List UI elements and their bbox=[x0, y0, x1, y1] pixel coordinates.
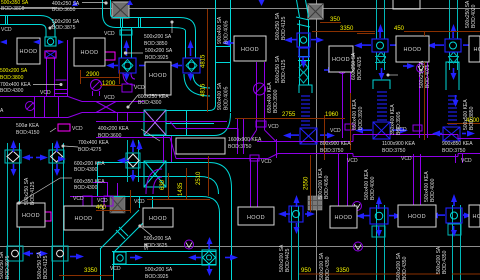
duct elbow down bbox=[40, 16, 55, 31]
svg-text:500x200 SA: 500x200 SA bbox=[144, 34, 172, 40]
right side drops below duct bbox=[338, 154, 340, 206]
svg-text:500x200 SA: 500x200 SA bbox=[145, 267, 173, 273]
svg-text:BOD:4000: BOD:4000 bbox=[370, 176, 376, 200]
svg-text:500x200 SA: 500x200 SA bbox=[0, 68, 28, 74]
right diffusers top bbox=[372, 39, 388, 52]
bottom long SA duct bbox=[112, 250, 216, 265]
svg-text:3350: 3350 bbox=[340, 26, 354, 32]
svg-text:900x850 KEA: 900x850 KEA bbox=[442, 141, 473, 147]
hood H10 bbox=[238, 207, 274, 225]
overlay arrow on hood H1 bbox=[33, 40, 40, 45]
svg-text:1960: 1960 bbox=[325, 112, 339, 118]
right arrows bbox=[145, 63, 153, 69]
cross transition bbox=[96, 102, 116, 113]
duct big elbow center bbox=[97, 162, 209, 164]
hood H12 bbox=[398, 205, 436, 227]
duct elbow down right bbox=[180, 18, 196, 32]
svg-text:500ø KEA: 500ø KEA bbox=[16, 123, 39, 129]
svg-text:BOD:4005: BOD:4005 bbox=[224, 20, 230, 44]
svg-text:VCD: VCD bbox=[104, 31, 115, 37]
hood H4 bbox=[329, 46, 353, 72]
svg-text:BOD:4300: BOD:4300 bbox=[138, 100, 162, 106]
svg-text:BOD:4050: BOD:4050 bbox=[324, 175, 330, 199]
damper on slant duct bbox=[297, 33, 310, 47]
svg-text:VCD: VCD bbox=[461, 158, 472, 164]
svg-text:VCD: VCD bbox=[347, 158, 358, 164]
svg-text:2550: 2550 bbox=[304, 176, 310, 190]
svg-text:VCD: VCD bbox=[1, 27, 12, 33]
slant duct 500x250 top center bbox=[296, 0, 312, 93]
hood H1 bbox=[17, 38, 40, 64]
svg-text:800x900 KEA: 800x900 KEA bbox=[320, 141, 351, 147]
svg-text:BOD:4300: BOD:4300 bbox=[0, 88, 24, 94]
white leader lines bbox=[18, 2, 398, 236]
hood2 drop bbox=[67, 40, 69, 96]
svg-text:VCD: VCD bbox=[104, 95, 115, 101]
svg-text:350: 350 bbox=[330, 17, 341, 23]
svg-text:1200: 1200 bbox=[102, 81, 116, 87]
svg-text:BOD:4125: BOD:4125 bbox=[281, 59, 287, 83]
hood H5 bbox=[396, 36, 429, 62]
svg-text:1100x900 KEA: 1100x900 KEA bbox=[382, 141, 416, 147]
white equipment rect bbox=[176, 138, 225, 154]
svg-text:500x200 SA: 500x200 SA bbox=[144, 236, 172, 242]
svg-text:BOD:3925: BOD:3925 bbox=[145, 274, 169, 280]
white equipment rect top bbox=[393, 0, 420, 9]
diffuser box drop1 bbox=[119, 58, 136, 73]
circle damper symbol bbox=[26, 102, 35, 111]
svg-text:VCD: VCD bbox=[330, 128, 341, 134]
big exhaust duct left bbox=[0, 96, 68, 98]
diffusers bottom bbox=[7, 246, 23, 261]
grid line horizontal top bbox=[0, 8, 480, 10]
svg-text:BOD:4025: BOD:4025 bbox=[357, 56, 363, 80]
duct top2 elbow to horizontal bbox=[103, 14, 117, 28]
svg-text:HOOD: HOOD bbox=[241, 47, 259, 53]
svg-text:900x400 SA: 900x400 SA bbox=[217, 82, 223, 110]
svg-text:BOD:3800: BOD:3800 bbox=[1, 6, 25, 12]
right-bottom diffusers bbox=[370, 208, 388, 224]
damper boxes mid bbox=[5, 150, 21, 163]
column B (hatched) bbox=[308, 4, 323, 19]
svg-text:HOOD: HOOD bbox=[149, 73, 167, 79]
svg-text:BOD:3800: BOD:3800 bbox=[0, 75, 24, 81]
svg-text:BOD:3920: BOD:3920 bbox=[358, 106, 364, 130]
vertical duct bottom-left of diagonal bbox=[100, 248, 102, 280]
yellow dimension texts bbox=[84, 17, 480, 274]
svg-text:4815: 4815 bbox=[201, 54, 207, 68]
svg-text:SA: SA bbox=[144, 243, 150, 250]
svg-text:BOD:4425: BOD:4425 bbox=[285, 248, 291, 272]
svg-text:BOD:3750: BOD:3750 bbox=[442, 148, 466, 154]
duct top-left horizontal bbox=[0, 15, 40, 17]
big central duct bbox=[96, 121, 227, 123]
grid line vertical bbox=[316, 0, 318, 280]
hood H7 bbox=[17, 203, 45, 227]
diffuser box drop2 bbox=[183, 58, 200, 73]
svg-text:630: 630 bbox=[160, 179, 166, 190]
svg-text:BOD:4300: BOD:4300 bbox=[74, 185, 98, 191]
svg-text:BOD:4150: BOD:4150 bbox=[16, 130, 40, 136]
svg-text:BOD:4275: BOD:4275 bbox=[78, 147, 102, 153]
right-bottom SA duct assemblies bbox=[292, 52, 462, 280]
riser circle on duct bbox=[91, 80, 102, 91]
svg-text:BOD:4125: BOD:4125 bbox=[281, 16, 287, 40]
fire damper box 1 bbox=[144, 110, 166, 135]
svg-text:900x400 SA: 900x400 SA bbox=[217, 16, 223, 44]
svg-text:BOD:4000: BOD:4000 bbox=[430, 178, 436, 202]
hood3 hood5 drops purple bbox=[342, 72, 344, 138]
svg-text:BOD:4020: BOD:4020 bbox=[471, 4, 477, 28]
hood H8 bbox=[64, 206, 103, 230]
elbow to west bbox=[209, 105, 216, 111]
svg-text:HOOD: HOOD bbox=[22, 213, 40, 219]
down arrows risers bbox=[379, 73, 385, 80]
svg-text:HOOD: HOOD bbox=[408, 214, 426, 220]
svg-text:BOD:3975: BOD:3975 bbox=[5, 255, 11, 279]
duct seams bbox=[120, 17, 122, 28]
svg-text:BOD:3875: BOD:3875 bbox=[52, 25, 76, 31]
svg-text:BOD:4350: BOD:4350 bbox=[402, 256, 408, 280]
fire damper box 2 bbox=[144, 161, 166, 187]
svg-text:VCD: VCD bbox=[72, 126, 83, 132]
hood H6b bbox=[145, 62, 171, 95]
hood H11 bbox=[330, 206, 357, 228]
svg-text:BOD:4350: BOD:4350 bbox=[442, 250, 448, 274]
down arrows bbox=[124, 74, 130, 81]
svg-text:2900: 2900 bbox=[86, 72, 100, 78]
svg-text:1600x900 KEA: 1600x900 KEA bbox=[228, 137, 262, 143]
bottom hood connections left bbox=[70, 196, 110, 198]
duct 900x400 SA vertical big bbox=[215, 0, 217, 105]
damper VCD box bbox=[45, 37, 56, 46]
svg-text:BOD:3600: BOD:3600 bbox=[98, 133, 122, 139]
svg-text:700x400 KEA: 700x400 KEA bbox=[78, 140, 109, 146]
svg-text:VCD: VCD bbox=[73, 196, 84, 202]
svg-text:BOD:4025: BOD:4025 bbox=[425, 64, 431, 88]
svg-text:BOD:3750: BOD:3750 bbox=[228, 144, 252, 150]
hood H9 bbox=[143, 208, 173, 227]
magenta small damper below VCD box bbox=[44, 51, 115, 221]
svg-text:HOOD: HOOD bbox=[149, 216, 167, 222]
svg-text:HOOD: HOOD bbox=[403, 47, 421, 53]
svg-text:VCD: VCD bbox=[110, 266, 121, 272]
svg-text:950: 950 bbox=[301, 268, 312, 274]
svg-text:BOD:3925: BOD:3925 bbox=[145, 55, 169, 61]
svg-text:3350: 3350 bbox=[84, 268, 98, 274]
svg-text:VCD: VCD bbox=[97, 198, 108, 204]
drop to lower duct bbox=[117, 113, 119, 123]
hood H3 bbox=[234, 36, 266, 61]
drops off bottom edge bbox=[163, 136, 165, 162]
center riser flex + damper bbox=[300, 96, 317, 144]
vertical duct from hood1 bbox=[46, 58, 48, 96]
svg-text:VCD: VCD bbox=[134, 199, 145, 205]
svg-text:BOD:3905: BOD:3905 bbox=[396, 111, 402, 135]
svg-text:HOOD: HOOD bbox=[74, 216, 92, 222]
column A (hatched) bbox=[112, 2, 129, 18]
svg-text:BOD:3900: BOD:3900 bbox=[273, 89, 279, 113]
svg-text:HOOD: HOOD bbox=[334, 215, 352, 221]
hood H6 bbox=[469, 36, 480, 62]
svg-text:HOOD: HOOD bbox=[332, 57, 350, 63]
svg-text:3350: 3350 bbox=[336, 268, 350, 274]
svg-text:1435: 1435 bbox=[178, 182, 184, 196]
svg-text:BOD:4300: BOD:4300 bbox=[74, 167, 98, 173]
column C gray block bbox=[308, 196, 322, 210]
svg-text:HOOD: HOOD bbox=[19, 49, 37, 55]
column D gray block small bbox=[110, 196, 125, 213]
svg-text:BOD:3850: BOD:3850 bbox=[469, 106, 475, 130]
svg-text:BOD:3850: BOD:3850 bbox=[144, 41, 168, 47]
hood H13 bbox=[469, 205, 480, 227]
purple circle symbols bbox=[185, 64, 426, 252]
svg-text:BOD:4125: BOD:4125 bbox=[43, 255, 49, 279]
svg-text:4815: 4815 bbox=[201, 83, 207, 97]
svg-text:500x200 SA: 500x200 SA bbox=[145, 48, 173, 54]
left arrows bbox=[0, 40, 7, 45]
svg-text:BOD:4005: BOD:4005 bbox=[224, 86, 230, 110]
svg-text:BOD:3750: BOD:3750 bbox=[382, 148, 406, 154]
teal vertical SA ducts left bbox=[5, 140, 140, 280]
grid line horizontal bottom bbox=[0, 246, 480, 248]
svg-text:2510: 2510 bbox=[196, 171, 202, 185]
hood H2 bbox=[74, 38, 105, 66]
collar bbox=[299, 85, 312, 93]
svg-text:HO: HO bbox=[472, 214, 480, 220]
svg-text:400: 400 bbox=[96, 205, 107, 211]
svg-text:VCD: VCD bbox=[40, 90, 51, 96]
diagonal duct 45deg bbox=[100, 210, 139, 249]
svg-text:450: 450 bbox=[394, 26, 405, 32]
right SA drop assemblies x380 x453 bbox=[375, 0, 459, 70]
drop below elbow duct bbox=[139, 197, 141, 208]
up arrows bbox=[124, 40, 130, 48]
svg-text:VCD: VCD bbox=[134, 85, 145, 91]
svg-text:HOOD: HOOD bbox=[80, 50, 98, 56]
svg-text:400x200 KEA: 400x200 KEA bbox=[98, 126, 129, 132]
branch drop x119 bbox=[121, 28, 123, 58]
svg-text:HOOD: HOOD bbox=[247, 215, 265, 221]
svg-text:VCD: VCD bbox=[401, 156, 412, 162]
svg-text:VCD: VCD bbox=[268, 124, 279, 130]
svg-text:2755: 2755 bbox=[282, 112, 296, 118]
svg-text:BOD:4350: BOD:4350 bbox=[325, 256, 331, 280]
svg-text:VCD: VCD bbox=[261, 159, 272, 165]
KEA risers with flex bbox=[373, 80, 390, 139]
duct top2 vertical from top edge bbox=[102, 0, 104, 14]
svg-text:BOD:3750: BOD:3750 bbox=[320, 148, 344, 154]
svg-text:HO: HO bbox=[473, 47, 480, 53]
svg-text:BOD:3650: BOD:3650 bbox=[52, 7, 76, 13]
